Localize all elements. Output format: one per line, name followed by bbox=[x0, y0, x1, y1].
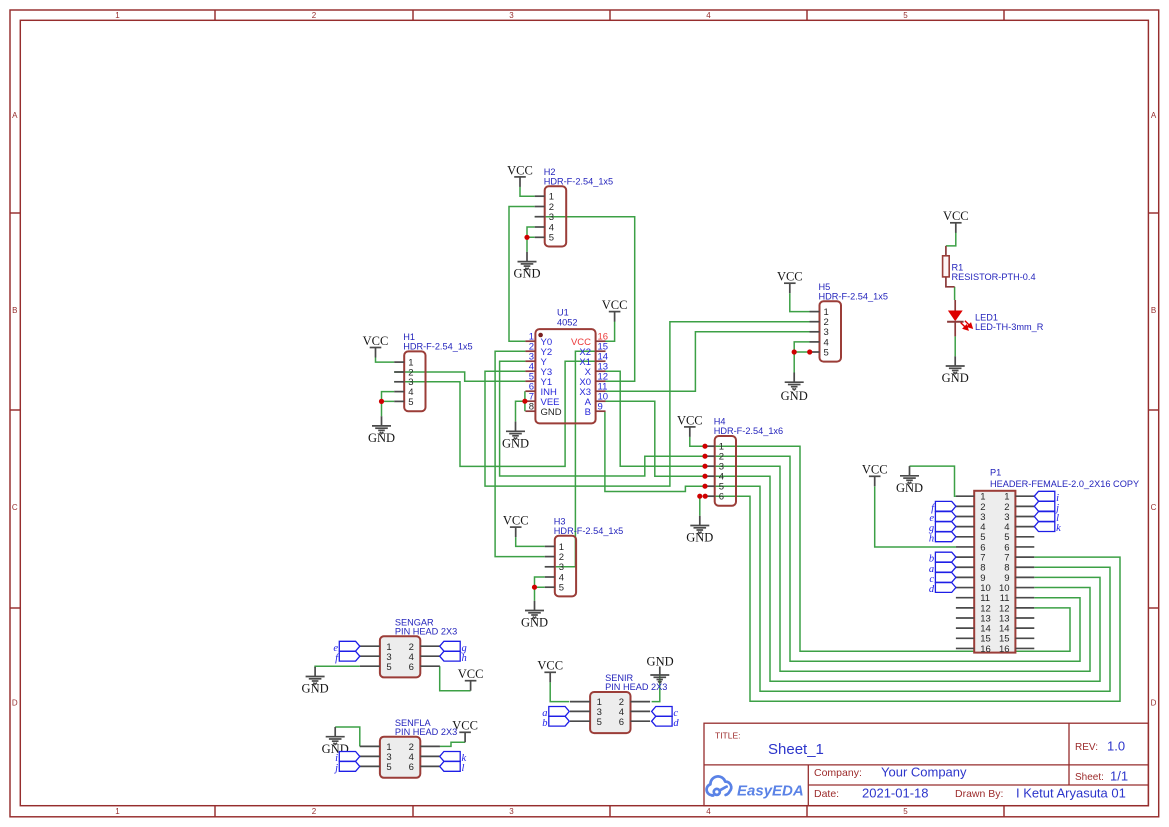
svg-text:GND: GND bbox=[368, 431, 395, 445]
svg-text:6: 6 bbox=[409, 662, 414, 673]
ground below H4 bbox=[690, 516, 709, 533]
wire H1 pin5 to GND bbox=[381, 401, 383, 416]
node e (SENGAR pin1) bbox=[339, 641, 360, 651]
wire SENGAR pin6 to VCC bbox=[440, 666, 471, 691]
svg-text:Drawn By:: Drawn By: bbox=[955, 788, 1003, 800]
svg-text:GND: GND bbox=[541, 407, 562, 418]
node g (P1 left pin4) bbox=[935, 522, 956, 532]
power VCC at SENGAR bbox=[465, 681, 477, 691]
svg-text:EasyEDA: EasyEDA bbox=[737, 783, 804, 800]
ground at SENIR bbox=[650, 667, 669, 683]
ground at SENFLA bbox=[326, 727, 345, 744]
svg-text:Your Company: Your Company bbox=[881, 765, 967, 780]
svg-text:PIN HEAD 2X3: PIN HEAD 2X3 bbox=[395, 727, 457, 737]
power VCC at H2 bbox=[514, 177, 526, 187]
node k (SENFLA pin4) bbox=[440, 752, 461, 762]
junction H5 pin5 bbox=[807, 349, 812, 354]
svg-text:C: C bbox=[12, 503, 18, 512]
node c (P1 left pin9) bbox=[935, 573, 956, 583]
svg-text:6: 6 bbox=[409, 762, 414, 773]
svg-text:PIN HEAD 2X3: PIN HEAD 2X3 bbox=[395, 627, 457, 637]
svg-text:REV:: REV: bbox=[1075, 742, 1098, 753]
svg-text:HEADER-FEMALE-2.0_2X16 COPY: HEADER-FEMALE-2.0_2X16 COPY bbox=[990, 479, 1139, 489]
svg-text:3: 3 bbox=[509, 11, 514, 20]
wire SENIR pin2 to GND bbox=[652, 675, 660, 702]
wire net X0: H2 pin3 to U1 pin12 bbox=[535, 217, 635, 382]
node a (P1 left pin8) bbox=[935, 562, 956, 572]
power VCC at U1 pin16 bbox=[609, 312, 621, 322]
header H2 HDR-F-2.54_1x5 bbox=[535, 167, 613, 247]
wire VCC to R1 bbox=[946, 233, 956, 246]
svg-text:5: 5 bbox=[903, 11, 908, 20]
svg-text:VCC: VCC bbox=[943, 209, 969, 223]
svg-text:VCC: VCC bbox=[677, 413, 703, 427]
svg-text:9: 9 bbox=[598, 401, 603, 412]
wire H2 pin5 to GND bbox=[526, 237, 528, 252]
svg-text:GND: GND bbox=[781, 389, 808, 403]
junction H4 pin5 bbox=[702, 484, 707, 489]
svg-text:4: 4 bbox=[706, 11, 711, 20]
wire R1 to LED1 bbox=[954, 287, 956, 300]
wire H3 pin5 to GND bbox=[534, 587, 536, 601]
node j (P1 right pin2) bbox=[1034, 501, 1055, 511]
svg-text:Date:: Date: bbox=[814, 788, 839, 800]
svg-text:VCC: VCC bbox=[537, 659, 563, 673]
svg-text:GND: GND bbox=[896, 481, 923, 495]
svg-text:4: 4 bbox=[706, 807, 711, 816]
wire bus H4 pin5 to P1 pin8 bbox=[705, 486, 1111, 691]
svg-text:5: 5 bbox=[386, 762, 391, 773]
svg-text:GND: GND bbox=[302, 682, 329, 696]
ground below H2 bbox=[518, 252, 537, 269]
svg-text:16: 16 bbox=[999, 644, 1010, 655]
wire net Y1: H1 pin2 to U1 pin5 bbox=[394, 372, 525, 381]
wire VCC stem joint SENGAR bbox=[470, 690, 472, 692]
header H4 HDR-F-2.54_1x6 bbox=[705, 417, 783, 506]
wire net Y2: U1 pin2 to H3 pin2 bbox=[495, 351, 545, 556]
ground below H1 bbox=[372, 416, 391, 433]
svg-text:PIN HEAD 2X3: PIN HEAD 2X3 bbox=[605, 682, 667, 692]
svg-text:6: 6 bbox=[619, 717, 624, 728]
wire VCC to H5 pin1 bbox=[790, 293, 810, 311]
node h (SENGAR pin4) bbox=[440, 651, 461, 661]
svg-text:HDR-F-2.54_1x5: HDR-F-2.54_1x5 bbox=[544, 176, 613, 186]
svg-text:GND: GND bbox=[942, 371, 969, 385]
resistor R1 RESISTOR-PTH-0.4 bbox=[943, 246, 1036, 287]
svg-text:B: B bbox=[1151, 306, 1156, 315]
svg-text:Sheet_1: Sheet_1 bbox=[768, 741, 824, 758]
svg-text:U1: U1 bbox=[557, 308, 569, 318]
connector SENIR PIN HEAD 2X3 bbox=[570, 673, 667, 733]
node c (SENIR pin4) bbox=[652, 707, 673, 717]
svg-text:16: 16 bbox=[980, 644, 991, 655]
svg-text:D: D bbox=[12, 699, 18, 708]
svg-text:4052: 4052 bbox=[557, 318, 577, 328]
node l (P1 right pin3) bbox=[1034, 512, 1055, 522]
header H5 HDR-F-2.54_1x5 bbox=[810, 282, 888, 362]
svg-text:h: h bbox=[929, 533, 934, 544]
svg-text:2021-01-18: 2021-01-18 bbox=[862, 786, 929, 801]
junction H3 pin5 bbox=[532, 585, 537, 590]
svg-text:8: 8 bbox=[529, 401, 534, 412]
wire VCC to SENIR pin1 bbox=[550, 682, 569, 701]
junction H4 pin6 bbox=[703, 494, 708, 499]
svg-text:RESISTOR-PTH-0.4: RESISTOR-PTH-0.4 bbox=[952, 272, 1036, 282]
wire GND to P1 pin1 bbox=[910, 466, 956, 496]
ground below H3 bbox=[525, 601, 544, 618]
wire H3 pin4 to pin5 bbox=[535, 577, 545, 587]
wire U1 VEE to GND bbox=[516, 401, 525, 421]
wire net X: U1 pin13 to H4 pin3 bbox=[606, 371, 705, 466]
svg-text:VCC: VCC bbox=[862, 463, 888, 477]
header H3 HDR-F-2.54_1x5 bbox=[545, 516, 623, 596]
svg-text:5: 5 bbox=[549, 233, 554, 244]
svg-text:5: 5 bbox=[559, 583, 564, 594]
power VCC at H3 bbox=[510, 527, 522, 537]
junction H1 pin5 bbox=[379, 399, 384, 404]
node f (P1 left pin2) bbox=[935, 501, 956, 511]
title block bbox=[704, 723, 1148, 806]
svg-text:HDR-F-2.54_1x6: HDR-F-2.54_1x6 bbox=[714, 426, 783, 436]
wire H2 pin4 to pin5 bbox=[527, 227, 535, 237]
junction H4 pin4 bbox=[702, 474, 707, 479]
wire net X3: H5 pin3 to U1 pin11 bbox=[606, 332, 810, 391]
svg-text:1: 1 bbox=[115, 11, 120, 20]
svg-text:GND: GND bbox=[513, 267, 540, 281]
svg-text:VCC: VCC bbox=[777, 270, 803, 284]
LED LED1 LED-TH-3mm_R bbox=[947, 300, 1044, 336]
svg-text:5: 5 bbox=[903, 807, 908, 816]
node f (SENGAR pin3) bbox=[339, 651, 360, 661]
svg-text:B: B bbox=[12, 306, 17, 315]
node b (P1 left pin7) bbox=[935, 552, 956, 562]
wire H5 pin4 to pin5 bbox=[794, 342, 809, 352]
wire net Y3: U1 pin4 to H5 pin2 bbox=[485, 322, 810, 486]
node h (P1 left pin5) bbox=[935, 532, 956, 542]
wire bus H4 pin2 to P1 pin11 bbox=[705, 456, 1081, 661]
wire SENFLA pin2 to VCC bbox=[440, 742, 465, 746]
wire H4 pin6 to GND bbox=[699, 496, 701, 516]
wire VCC to H4 pin1 bbox=[690, 437, 705, 446]
svg-text:5: 5 bbox=[408, 397, 413, 408]
svg-text:C: C bbox=[1151, 503, 1157, 512]
svg-text:5: 5 bbox=[824, 347, 829, 358]
svg-text:HDR-F-2.54_1x5: HDR-F-2.54_1x5 bbox=[819, 291, 888, 301]
wire SENFLA pin1 to GND bbox=[335, 727, 360, 746]
junction H4 pin3 bbox=[702, 464, 707, 469]
svg-text:h: h bbox=[462, 653, 467, 664]
svg-text:Sheet:: Sheet: bbox=[1075, 772, 1104, 783]
power VCC at P1 pin6 bbox=[869, 476, 881, 486]
junction H5 GND branch bbox=[792, 349, 797, 354]
svg-text:A: A bbox=[12, 111, 18, 120]
svg-text:H5: H5 bbox=[819, 282, 831, 292]
power VCC at SENIR bbox=[544, 672, 556, 682]
svg-text:A: A bbox=[1151, 111, 1157, 120]
svg-text:VCC: VCC bbox=[363, 334, 389, 348]
EasyEDA logo bbox=[707, 776, 732, 795]
node l (SENFLA pin6) bbox=[440, 762, 461, 772]
ground below LED1 bbox=[946, 356, 965, 373]
ground below H5 bbox=[785, 373, 804, 390]
svg-text:5: 5 bbox=[386, 662, 391, 673]
junction H4 pin1 bbox=[702, 444, 707, 449]
node e (P1 left pin3) bbox=[935, 512, 956, 522]
junction H4 pin6 GND branch bbox=[697, 494, 702, 499]
node j (SENFLA pin5) bbox=[339, 762, 360, 772]
svg-text:H4: H4 bbox=[714, 417, 726, 427]
connector P1 HEADER-FEMALE-2.0_2X16 COPY bbox=[956, 467, 1139, 655]
svg-text:VCC: VCC bbox=[602, 298, 628, 312]
node a (SENIR pin3) bbox=[549, 707, 570, 717]
connector SENGAR PIN HEAD 2X3 bbox=[360, 618, 457, 678]
svg-text:GND: GND bbox=[686, 531, 713, 545]
junction H4 pin2 bbox=[702, 454, 707, 459]
power VCC at H5 bbox=[784, 283, 796, 293]
svg-text:B: B bbox=[585, 407, 591, 418]
power VCC at SENFLA bbox=[459, 732, 471, 742]
svg-text:GND: GND bbox=[521, 616, 548, 630]
wire SENGAR pin5 to GND bbox=[315, 666, 360, 668]
svg-text:k: k bbox=[1056, 523, 1061, 534]
junction U1 VEE bbox=[522, 399, 527, 404]
svg-text:1/1: 1/1 bbox=[1110, 769, 1128, 784]
svg-text:VCC: VCC bbox=[503, 514, 529, 528]
wire H5 pin5 to GND bbox=[793, 352, 795, 373]
svg-text:Company:: Company: bbox=[814, 767, 862, 779]
svg-text:H1: H1 bbox=[403, 332, 415, 342]
wire bus H4 pin1 to P1 pin12 bbox=[705, 446, 1071, 651]
svg-text:GND: GND bbox=[647, 655, 674, 669]
node k (P1 right pin4) bbox=[1034, 522, 1055, 532]
svg-text:d: d bbox=[673, 718, 679, 729]
wire LED1 to GND bbox=[954, 336, 956, 356]
svg-text:VCC: VCC bbox=[458, 667, 484, 681]
wire net X2: U1 pin15 to H3 pin3 bbox=[545, 351, 606, 567]
node d (SENIR pin6) bbox=[652, 716, 673, 726]
svg-text:I Ketut Aryasuta 01: I Ketut Aryasuta 01 bbox=[1016, 786, 1126, 801]
node i (SENFLA pin3) bbox=[339, 752, 360, 762]
power VCC at H4 bbox=[684, 427, 696, 437]
header H1 HDR-F-2.54_1x5 bbox=[394, 332, 472, 411]
node g (SENGAR pin2) bbox=[440, 641, 461, 651]
svg-text:5: 5 bbox=[597, 717, 602, 728]
svg-text:3: 3 bbox=[509, 807, 514, 816]
IC U1 4052 bbox=[525, 308, 608, 424]
wire VCC to H3 pin1 bbox=[516, 537, 545, 546]
svg-text:D: D bbox=[1151, 699, 1157, 708]
svg-text:b: b bbox=[542, 718, 547, 729]
node i (P1 right pin1) bbox=[1034, 491, 1055, 501]
wire VCC to P1 pin6 bbox=[875, 486, 956, 547]
wire net Y0: H2 pin2 to U1 pin1 bbox=[509, 207, 535, 342]
svg-text:2: 2 bbox=[312, 11, 317, 20]
wire net X1: H1 pin3 to U1 pin14 bbox=[394, 361, 605, 466]
svg-text:1: 1 bbox=[115, 807, 120, 816]
svg-text:1.0: 1.0 bbox=[1107, 739, 1125, 754]
node b (SENIR pin5) bbox=[549, 716, 570, 726]
svg-text:LED-TH-3mm_R: LED-TH-3mm_R bbox=[975, 322, 1044, 332]
svg-text:HDR-F-2.54_1x5: HDR-F-2.54_1x5 bbox=[403, 341, 472, 351]
svg-text:6: 6 bbox=[719, 492, 724, 503]
power VCC at R1 bbox=[950, 223, 962, 233]
wire bus H4 pin4 to P1 pin9 bbox=[705, 476, 1101, 681]
node d (P1 left pin10) bbox=[935, 583, 956, 593]
power VCC at H1 bbox=[370, 348, 382, 358]
svg-text:d: d bbox=[929, 584, 935, 595]
svg-text:LED1: LED1 bbox=[975, 313, 998, 323]
junction H2 pin5 bbox=[524, 235, 529, 240]
wire U1 pins 6-7-8 tie bbox=[524, 391, 526, 411]
svg-text:VCC: VCC bbox=[507, 163, 533, 177]
wire net B: U1 pin9 to H4 pin5 bbox=[605, 411, 705, 491]
svg-text:R1: R1 bbox=[952, 263, 964, 273]
wire net A: U1 pin10 to H4 pin4 bbox=[606, 401, 705, 476]
svg-text:H3: H3 bbox=[554, 516, 566, 526]
wire net Y: U1 pin3 to H4 pin2 bbox=[500, 361, 705, 476]
wire bus H4 pin6 to P1 pin7 bbox=[705, 496, 1121, 701]
wire H1 pin4 to pin5 bbox=[382, 392, 395, 402]
wire VCC to H1 pin1 bbox=[376, 358, 395, 363]
wire VCC to H2 pin1 bbox=[520, 187, 535, 197]
svg-text:2: 2 bbox=[312, 807, 317, 816]
ground below U1 bbox=[506, 422, 525, 439]
svg-text:TITLE:: TITLE: bbox=[715, 731, 741, 741]
ground at SENGAR bbox=[306, 667, 325, 684]
connector SENFLA PIN HEAD 2X3 bbox=[360, 718, 457, 778]
ground at P1 pin1 bbox=[900, 466, 919, 483]
wire VCC to U1 pin16 bbox=[606, 322, 615, 342]
svg-text:l: l bbox=[462, 763, 465, 774]
wire bus H4 pin3 to P1 pin10 bbox=[705, 466, 1091, 671]
svg-text:HDR-F-2.54_1x5: HDR-F-2.54_1x5 bbox=[554, 526, 623, 536]
svg-text:GND: GND bbox=[502, 436, 529, 450]
svg-text:P1: P1 bbox=[990, 467, 1001, 477]
svg-text:H2: H2 bbox=[544, 167, 556, 177]
